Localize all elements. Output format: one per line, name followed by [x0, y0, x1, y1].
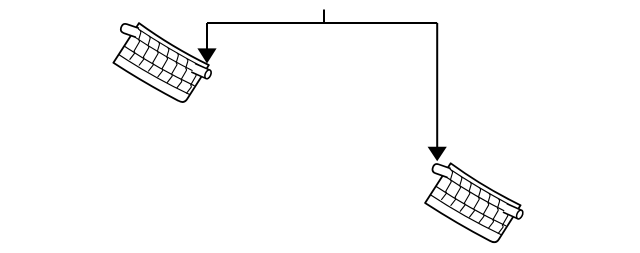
callout bracket horizontal line: [207, 22, 437, 24]
right grille part: [414, 156, 527, 250]
callout tick to label 1: [323, 10, 325, 24]
right arrowhead: [428, 147, 447, 162]
left leader line: [206, 23, 208, 49]
right leader line: [436, 23, 438, 147]
left grille part: [102, 16, 215, 110]
left arrowhead: [197, 48, 216, 63]
